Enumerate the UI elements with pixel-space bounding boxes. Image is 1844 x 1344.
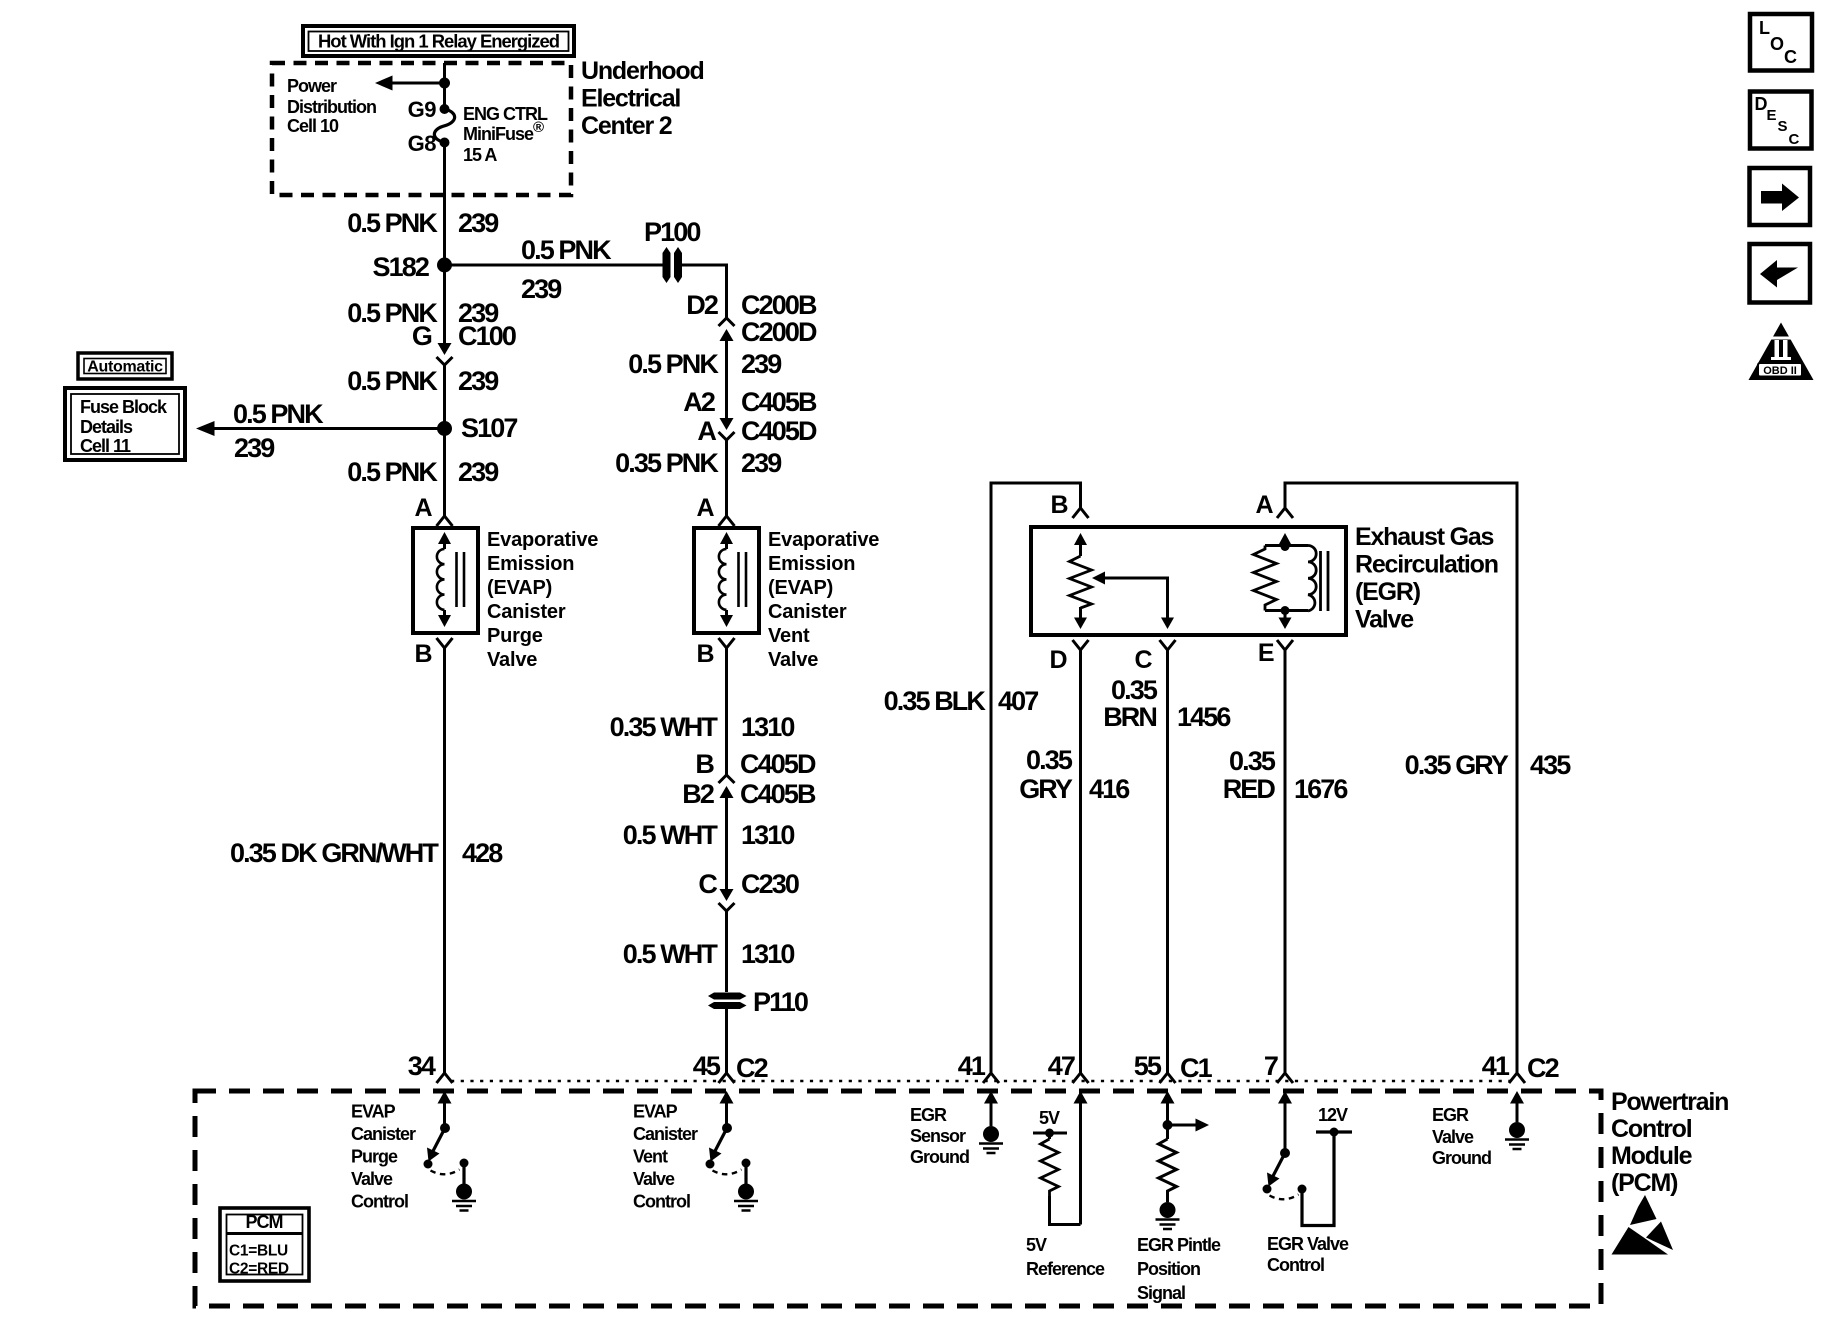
OBD II triangle symbol (1749, 323, 1814, 381)
svg-text:47: 47 (1048, 1051, 1075, 1081)
svg-text:OBD II: OBD II (1763, 365, 1797, 377)
svg-text:Canister: Canister (768, 601, 847, 623)
svg-text:Power: Power (287, 76, 337, 96)
connector C230 inline (down arrow + chevron) (720, 889, 734, 901)
svg-text:Purge: Purge (351, 1147, 398, 1167)
icon box right arrow (1750, 168, 1811, 225)
svg-text:45: 45 (693, 1051, 721, 1081)
svg-text:0.5 PNK: 0.5 PNK (347, 457, 438, 487)
svg-text:Reference: Reference (1026, 1259, 1105, 1279)
svg-text:C1=BLU: C1=BLU (229, 1243, 288, 1260)
svg-text:0.35: 0.35 (1229, 746, 1276, 776)
svg-text:1310: 1310 (741, 712, 794, 742)
svg-text:(EVAP): (EVAP) (768, 577, 833, 599)
wire S182 to P100 (445, 264, 664, 267)
svg-text:Control: Control (351, 1192, 408, 1212)
svg-text:A: A (1255, 491, 1273, 519)
wire S107 down to purge valve (443, 429, 446, 517)
connector at PCM pin 7 (1277, 1073, 1293, 1083)
svg-text:Valve: Valve (1432, 1127, 1474, 1147)
svg-text:239: 239 (521, 274, 562, 304)
pintle signal node and arrow (1163, 1120, 1173, 1130)
svg-text:0.35 WHT: 0.35 WHT (610, 712, 719, 742)
connector at EGR pin B (1073, 508, 1089, 518)
wire S107 to fuse block arrow (213, 427, 445, 430)
svg-text:1310: 1310 (741, 820, 794, 850)
svg-text:41: 41 (1482, 1051, 1510, 1081)
connector at PCM pin 41 C2 (1509, 1073, 1525, 1083)
svg-text:A: A (414, 494, 432, 522)
svg-text:Evaporative: Evaporative (487, 529, 598, 551)
connector at EGR pin E + wire to pin 7 (1277, 640, 1293, 1073)
wire S182 down to C100 (443, 265, 446, 344)
svg-text:Recirculation: Recirculation (1355, 551, 1498, 579)
svg-text:(EVAP): (EVAP) (487, 577, 552, 599)
resistor for 5V reference (1041, 1139, 1059, 1196)
svg-text:E: E (1767, 107, 1777, 124)
svg-text:PCM: PCM (246, 1212, 283, 1232)
svg-text:EGR Valve: EGR Valve (1267, 1234, 1349, 1254)
EGR valve control driver switch (1280, 1148, 1290, 1158)
connector row dotted line (451, 1080, 1510, 1082)
svg-text:0.5 WHT: 0.5 WHT (623, 939, 719, 969)
potentiometer wiper arrow to terminal C (1092, 572, 1105, 585)
connector at purge valve pin A (437, 516, 453, 526)
fuse G8 terminal dot (440, 138, 450, 148)
connector C100 inline (down arrow + chevron) (438, 343, 452, 355)
svg-text:Valve: Valve (487, 649, 537, 671)
fuse ENG CTRL MiniFuse 15A S-curve (434, 109, 454, 143)
svg-text:239: 239 (741, 448, 782, 478)
arrow to Power Distribution (390, 82, 445, 85)
PCM legend box (220, 1208, 309, 1281)
svg-text:S: S (1778, 118, 1788, 135)
svg-text:A: A (696, 494, 714, 522)
svg-text:Sensor: Sensor (910, 1126, 966, 1146)
svg-text:L: L (1759, 18, 1770, 38)
5V supply bar (1033, 1132, 1067, 1135)
EVAP canister purge valve solenoid box (413, 528, 478, 633)
svg-text:G8: G8 (408, 131, 437, 156)
svg-text:EVAP: EVAP (351, 1102, 396, 1122)
svg-text:C: C (1784, 47, 1797, 67)
svg-text:B2: B2 (682, 779, 714, 809)
svg-text:407: 407 (998, 686, 1038, 716)
svg-text:B: B (696, 640, 714, 668)
svg-text:Control: Control (1267, 1255, 1324, 1275)
svg-text:C405B: C405B (740, 779, 816, 809)
svg-text:Valve: Valve (351, 1169, 393, 1189)
svg-text:EGR Pintle: EGR Pintle (1137, 1235, 1221, 1255)
svg-text:1456: 1456 (1177, 702, 1231, 732)
connector at purge valve pin B (437, 638, 453, 1073)
vent valve core lines (739, 552, 747, 607)
wire from top border down to fuse (443, 63, 446, 106)
svg-text:Valve: Valve (1355, 606, 1414, 634)
svg-text:Canister: Canister (487, 601, 566, 623)
EGR solenoid core lines (1321, 551, 1329, 611)
svg-text:0.5 WHT: 0.5 WHT (623, 820, 719, 850)
connector at vent valve pin B (719, 638, 735, 775)
node S182 (437, 258, 452, 273)
EVAP vent driver switch (722, 1123, 732, 1133)
svg-text:B: B (1050, 491, 1068, 519)
connector at PCM pin 45 C2 (719, 1073, 735, 1083)
wire EGR A terminal to pin 41 C2 (1285, 483, 1517, 1073)
svg-text:239: 239 (458, 457, 499, 487)
svg-text:S107: S107 (461, 413, 517, 443)
svg-text:55: 55 (1134, 1051, 1162, 1081)
svg-text:S182: S182 (373, 252, 429, 282)
svg-text:416: 416 (1089, 774, 1130, 804)
svg-text:0.35: 0.35 (1026, 745, 1073, 775)
icon box left arrow (1750, 244, 1811, 303)
connector at PCM pin 55 C1 (1160, 1073, 1176, 1083)
svg-text:435: 435 (1530, 750, 1571, 780)
svg-text:A: A (697, 416, 716, 446)
svg-text:Ground: Ground (1432, 1148, 1491, 1168)
svg-text:Valve: Valve (768, 649, 818, 671)
svg-text:C230: C230 (741, 869, 799, 899)
svg-text:RED: RED (1223, 774, 1276, 804)
EGR pintle position sensor (potentiometer) (1074, 533, 1087, 545)
connector at PCM pin 41 (983, 1073, 999, 1083)
EGR valve box (1031, 527, 1346, 635)
svg-text:(EGR): (EGR) (1355, 578, 1421, 606)
ESD sensitivity symbol (1630, 1195, 1657, 1225)
connector at PCM pin 34 (437, 1073, 453, 1083)
svg-text:Purge: Purge (487, 625, 543, 647)
svg-text:C405B: C405B (741, 387, 817, 417)
PCM dashed border (195, 1091, 1601, 1306)
svg-text:Electrical: Electrical (581, 85, 680, 113)
node S107 (437, 421, 452, 436)
svg-text:C: C (698, 869, 717, 899)
ground at purge driver (456, 1184, 472, 1200)
ground at pin 41 C2 EGR valve ground (1509, 1122, 1525, 1138)
svg-text:Powertrain: Powertrain (1611, 1088, 1728, 1116)
svg-text:EGR: EGR (910, 1105, 947, 1125)
connector at EGR pin A (1277, 508, 1293, 518)
banner box "Hot With Ign 1 Relay Energized" (303, 26, 574, 56)
svg-text:1310: 1310 (741, 939, 794, 969)
svg-text:D2: D2 (686, 290, 718, 320)
underhood electrical center 2 dashed box (272, 63, 571, 195)
svg-text:C: C (1134, 646, 1152, 674)
resistor for pintle position signal (1159, 1139, 1177, 1202)
svg-text:7: 7 (1264, 1051, 1278, 1081)
svg-text:Control: Control (1611, 1115, 1692, 1143)
connector P100 (pass-through grommet) (663, 247, 671, 283)
svg-text:0.35 BLK: 0.35 BLK (884, 686, 987, 716)
svg-text:O: O (1770, 34, 1784, 54)
svg-text:0.5 PNK: 0.5 PNK (628, 349, 719, 379)
svg-text:0.5 PNK: 0.5 PNK (347, 208, 438, 238)
EVAP canister vent valve solenoid box (694, 528, 759, 633)
svg-text:1676: 1676 (1294, 774, 1348, 804)
svg-text:C200D: C200D (741, 317, 817, 347)
svg-text:0.5 PNK: 0.5 PNK (521, 235, 612, 265)
svg-text:MiniFuse: MiniFuse (463, 124, 534, 144)
svg-text:D: D (1049, 646, 1067, 674)
svg-text:Vent: Vent (633, 1147, 668, 1167)
svg-text:C405D: C405D (740, 749, 816, 779)
svg-text:GRY: GRY (1019, 774, 1073, 804)
connector at EGR pin D + wire to pin 47 (1073, 640, 1089, 1073)
svg-text:239: 239 (458, 366, 499, 396)
12V supply bar (1316, 1130, 1352, 1133)
svg-text:Distribution: Distribution (287, 97, 376, 117)
svg-text:E: E (1258, 639, 1274, 667)
EGR solenoid (resistor + coil in parallel) (1279, 533, 1292, 545)
ground at pin 41 EGR sensor ground (983, 1126, 999, 1142)
svg-text:Fuse Block: Fuse Block (80, 397, 168, 417)
svg-text:Exhaust Gas: Exhaust Gas (1355, 523, 1494, 551)
svg-text:A2: A2 (683, 387, 715, 417)
connector at PCM pin 47 (1073, 1073, 1089, 1083)
wire resistor to pin 47 (1050, 1196, 1081, 1225)
purge valve coil with arrows (438, 532, 451, 544)
svg-text:B: B (695, 749, 714, 779)
svg-text:5V: 5V (1026, 1235, 1047, 1255)
EVAP purge driver switch (440, 1123, 450, 1133)
connector P110 (pass-through grommet) (708, 993, 747, 1074)
svg-text:12V: 12V (1318, 1105, 1348, 1125)
wire P100 to corner and down (681, 265, 727, 318)
connector C200B/C200D inline (chevron + up arrow) (719, 318, 735, 326)
svg-text:Automatic: Automatic (87, 359, 163, 376)
svg-text:®: ® (533, 119, 544, 136)
svg-text:C100: C100 (458, 321, 516, 351)
icon box LOC (1750, 14, 1812, 71)
wire pin41 up to EGR B terminal (991, 483, 1081, 1073)
svg-text:0.35 DK GRN/WHT: 0.35 DK GRN/WHT (230, 838, 439, 868)
box Fuse Block Details Cell 11 (65, 388, 185, 460)
svg-text:G9: G9 (408, 97, 437, 122)
wire G8 down out of box (443, 143, 446, 266)
svg-text:0.35 GRY: 0.35 GRY (1405, 750, 1509, 780)
ground at vent driver (738, 1184, 754, 1200)
svg-text:C2: C2 (736, 1053, 768, 1083)
svg-text:Vent: Vent (768, 625, 810, 647)
svg-text:Cell 10: Cell 10 (287, 116, 339, 136)
wire switch contact to 12V bar (1302, 1132, 1334, 1226)
svg-text:Module: Module (1611, 1142, 1693, 1170)
svg-text:C2=RED: C2=RED (229, 1261, 289, 1278)
svg-text:Hot With Ign 1 Relay Energized: Hot With Ign 1 Relay Energized (318, 32, 559, 52)
svg-text:Evaporative: Evaporative (768, 529, 879, 551)
svg-text:Canister: Canister (351, 1124, 416, 1144)
svg-text:0.5 PNK: 0.5 PNK (233, 399, 324, 429)
box Automatic (78, 353, 172, 379)
svg-text:Center 2: Center 2 (581, 112, 672, 140)
connector C405B/C405D inline (down arrow + chevron) (720, 418, 734, 430)
svg-text:41: 41 (958, 1051, 986, 1081)
svg-text:B: B (414, 640, 432, 668)
svg-text:C200B: C200B (741, 290, 817, 320)
purge valve core lines (457, 552, 465, 607)
svg-text:239: 239 (741, 349, 782, 379)
svg-text:Signal: Signal (1137, 1283, 1185, 1303)
svg-text:C405D: C405D (741, 416, 817, 446)
svg-text:34: 34 (408, 1051, 436, 1081)
svg-text:0.35 PNK: 0.35 PNK (615, 448, 719, 478)
svg-text:P110: P110 (753, 987, 808, 1017)
svg-text:0.5 PNK: 0.5 PNK (347, 366, 438, 396)
svg-text:Ground: Ground (910, 1147, 969, 1167)
svg-text:EVAP: EVAP (633, 1102, 678, 1122)
svg-text:Emission: Emission (768, 553, 855, 575)
svg-text:Underhood: Underhood (581, 57, 704, 85)
connector at vent valve pin A (719, 516, 735, 526)
svg-text:239: 239 (234, 433, 275, 463)
ground at pintle resistor (1160, 1202, 1176, 1218)
svg-text:Valve: Valve (633, 1169, 675, 1189)
svg-text:BRN: BRN (1103, 702, 1156, 732)
svg-text:Position: Position (1137, 1259, 1200, 1279)
icon box DESC (1750, 92, 1812, 149)
svg-text:0.35: 0.35 (1111, 675, 1158, 705)
vent valve coil with arrows (720, 532, 733, 544)
connector C405 inline on vent wire (chevron + up arrow) (719, 775, 735, 783)
node at top of fuse feed (439, 78, 450, 89)
svg-text:428: 428 (462, 838, 503, 868)
svg-text:Control: Control (633, 1192, 690, 1212)
svg-text:5V: 5V (1039, 1108, 1060, 1128)
svg-text:Details: Details (80, 417, 133, 437)
svg-text:Canister: Canister (633, 1124, 698, 1144)
svg-text:G: G (412, 321, 432, 351)
svg-text:Cell 11: Cell 11 (80, 436, 131, 456)
fuse F: G9 terminal dot (440, 104, 450, 114)
svg-text:15 A: 15 A (463, 145, 497, 165)
svg-text:C1: C1 (1180, 1053, 1213, 1083)
svg-text:C2: C2 (1527, 1053, 1559, 1083)
connector at EGR pin C + wire to pin 55 (1160, 640, 1176, 1073)
svg-text:Emission: Emission (487, 553, 574, 575)
svg-text:P100: P100 (644, 217, 700, 247)
svg-text:(PCM): (PCM) (1611, 1169, 1678, 1197)
svg-text:EGR: EGR (1432, 1105, 1469, 1125)
svg-text:239: 239 (458, 208, 499, 238)
svg-text:C: C (1789, 131, 1800, 148)
